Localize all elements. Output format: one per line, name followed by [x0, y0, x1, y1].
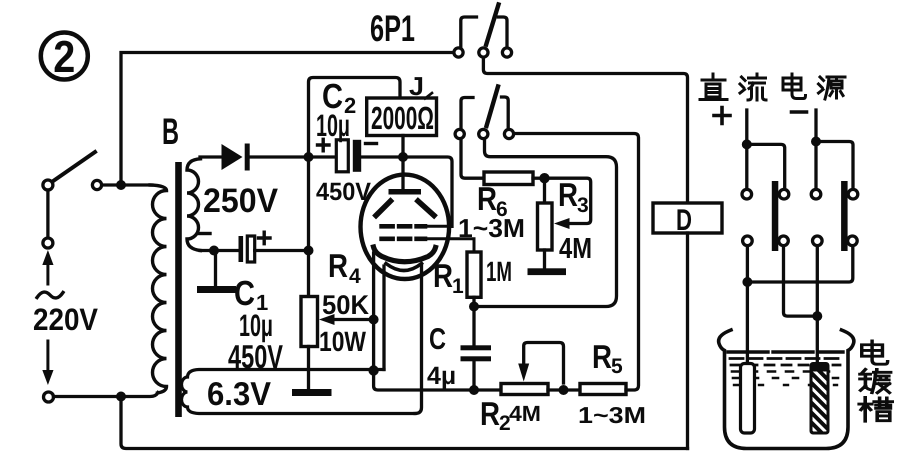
label C2 minus: [366, 142, 377, 145]
svg-text:450V: 450V: [316, 178, 371, 206]
wire crossover second contact: [784, 246, 818, 317]
svg-text:4: 4: [349, 265, 361, 288]
diode VD: [200, 144, 304, 171]
tube 6P1 envelope: [361, 175, 450, 279]
switch S1: [43, 152, 102, 190]
wire B+ vertical column: [307, 157, 310, 297]
svg-text:50K: 50K: [322, 290, 369, 320]
node R4 wiper on cathode lead: [369, 315, 379, 325]
svg-text:R: R: [592, 338, 612, 375]
DC supply plus terminal: [745, 110, 748, 189]
resistor R3 (4M) potentiometer: [543, 178, 546, 203]
svg-text:J: J: [409, 71, 424, 101]
wire cathode lead: [372, 253, 375, 371]
wire left electrode feed: [746, 246, 749, 364]
svg-text:220V: 220V: [33, 302, 98, 337]
svg-text:R: R: [433, 257, 453, 294]
char liu: [740, 74, 766, 100]
transformer primary winding: [150, 185, 167, 393]
AC source terminals and arrows: [42, 238, 53, 402]
tube cathode: [374, 247, 436, 262]
tube heater: [386, 264, 422, 271]
svg-text:1: 1: [452, 275, 464, 298]
svg-text:2000Ω: 2000Ω: [371, 100, 434, 136]
wire crossover lower-left to lower-right: [747, 246, 852, 282]
wire switch to AC terminal: [46, 190, 49, 238]
tube screen grid G2 dashes: [382, 224, 425, 229]
svg-text:10μ: 10μ: [316, 108, 350, 143]
liquid surface: [728, 350, 843, 353]
node anode: [398, 152, 408, 162]
tube control grid G1 dashes: [382, 237, 425, 242]
char du: [860, 369, 891, 392]
transformer 250V secondary winding: [187, 159, 201, 251]
transformer B core: [175, 162, 182, 417]
label C1 plus: [259, 232, 271, 244]
svg-text:4M: 4M: [509, 401, 541, 426]
svg-text:B: B: [162, 111, 179, 152]
wire bottom rail: [121, 397, 688, 449]
label ~ 220V: [37, 292, 63, 298]
svg-text:1~3M: 1~3M: [578, 402, 646, 428]
node B+: [304, 152, 314, 162]
wire anode rail to screen drop: [408, 157, 452, 226]
label C2 plus: [318, 139, 330, 151]
label plating tank (Chinese, vertical): [859, 341, 892, 421]
DC relay armature bars: [772, 181, 779, 251]
figure number badge (2): [41, 31, 88, 82]
wire C2/J loop top: [309, 78, 401, 158]
svg-text:1~3M: 1~3M: [458, 213, 525, 243]
char dian2: [862, 341, 888, 364]
svg-text:1M: 1M: [486, 256, 512, 287]
tube anode lead and plate: [401, 157, 404, 189]
char dian: [783, 74, 806, 99]
heater 6.3V winding loop: [182, 370, 416, 414]
node bottom-left junction: [116, 392, 126, 402]
left electrode (plate): [741, 364, 755, 434]
label DC power (Chinese): [700, 74, 845, 100]
plating tank beaker: [719, 330, 854, 449]
node C bottom: [469, 385, 479, 395]
wire R4 to ground: [307, 347, 310, 390]
ground for R4: [292, 389, 332, 396]
wire R5 to right bus: [514, 134, 639, 391]
wire right electrode feed: [816, 246, 819, 362]
wire heater pin 2: [415, 266, 422, 414]
resistor R1 (1M): [467, 252, 481, 297]
wire grid loop to relay contact K2: [474, 139, 617, 307]
label C1 minus: [199, 232, 210, 235]
char yuan: [819, 77, 846, 99]
resistor R2 (4M) potentiometer: [501, 384, 548, 395]
svg-text:R: R: [558, 176, 578, 213]
svg-text:3: 3: [577, 194, 589, 217]
wire heater pin 1: [382, 266, 385, 370]
svg-text:6P1: 6P1: [370, 8, 415, 49]
svg-text:R: R: [328, 247, 348, 284]
DC supply minus terminal: [814, 110, 817, 189]
char zhi: [700, 74, 727, 100]
svg-text:C: C: [429, 323, 446, 356]
ground for R3: [528, 268, 567, 275]
capacitor C (4u): [461, 345, 492, 350]
node C1/R4 column junction: [304, 246, 314, 256]
resistor R6 (1~3M): [461, 139, 484, 179]
DC relay contacts bottom row: [743, 236, 753, 246]
svg-text:10W: 10W: [319, 326, 366, 357]
wire switch to transformer: [102, 183, 152, 186]
relay contact K2 (lower): [455, 87, 513, 139]
node R1 bottom: [469, 302, 479, 312]
tube beam plates: [376, 201, 391, 216]
capacitor C1: [200, 236, 304, 262]
node C1 left junction: [209, 246, 219, 256]
wire cathode node to bottom rail: [374, 371, 501, 391]
resistor R4 (50K 10W): [301, 297, 318, 347]
wire J coil to anode node: [401, 136, 404, 158]
node cathode to heater loop: [368, 365, 378, 375]
wire K1 common to D: [483, 57, 687, 203]
relay contact K1 (top): [454, 5, 512, 58]
svg-text:250V: 250V: [203, 182, 278, 220]
svg-text:5: 5: [611, 355, 623, 378]
relay coil J box 2000ohm: [367, 98, 437, 136]
svg-text:6.3V: 6.3V: [207, 375, 271, 412]
svg-text:2: 2: [53, 31, 75, 82]
R4 wiper arrow: [333, 318, 369, 321]
svg-text:D: D: [676, 204, 692, 237]
ground for C1: [214, 251, 217, 287]
DC relay contacts top row: [742, 189, 752, 199]
wire top rail: [121, 53, 454, 186]
node switch-transformer junction: [116, 180, 126, 190]
char cao: [859, 397, 892, 421]
right electrode (hatched): [811, 364, 828, 434]
detector D box: [653, 203, 722, 233]
capacitor C2: [314, 140, 399, 172]
svg-text:4M: 4M: [559, 233, 592, 265]
svg-text:R: R: [477, 180, 497, 217]
wire R1 bottom: [472, 297, 475, 345]
resistor R5 (1~3M): [580, 384, 626, 395]
svg-text:R: R: [480, 395, 500, 432]
svg-text:4μ: 4μ: [427, 362, 456, 390]
wire D to bottom rail: [686, 233, 689, 449]
wire AC bottom to transformer: [54, 393, 159, 397]
